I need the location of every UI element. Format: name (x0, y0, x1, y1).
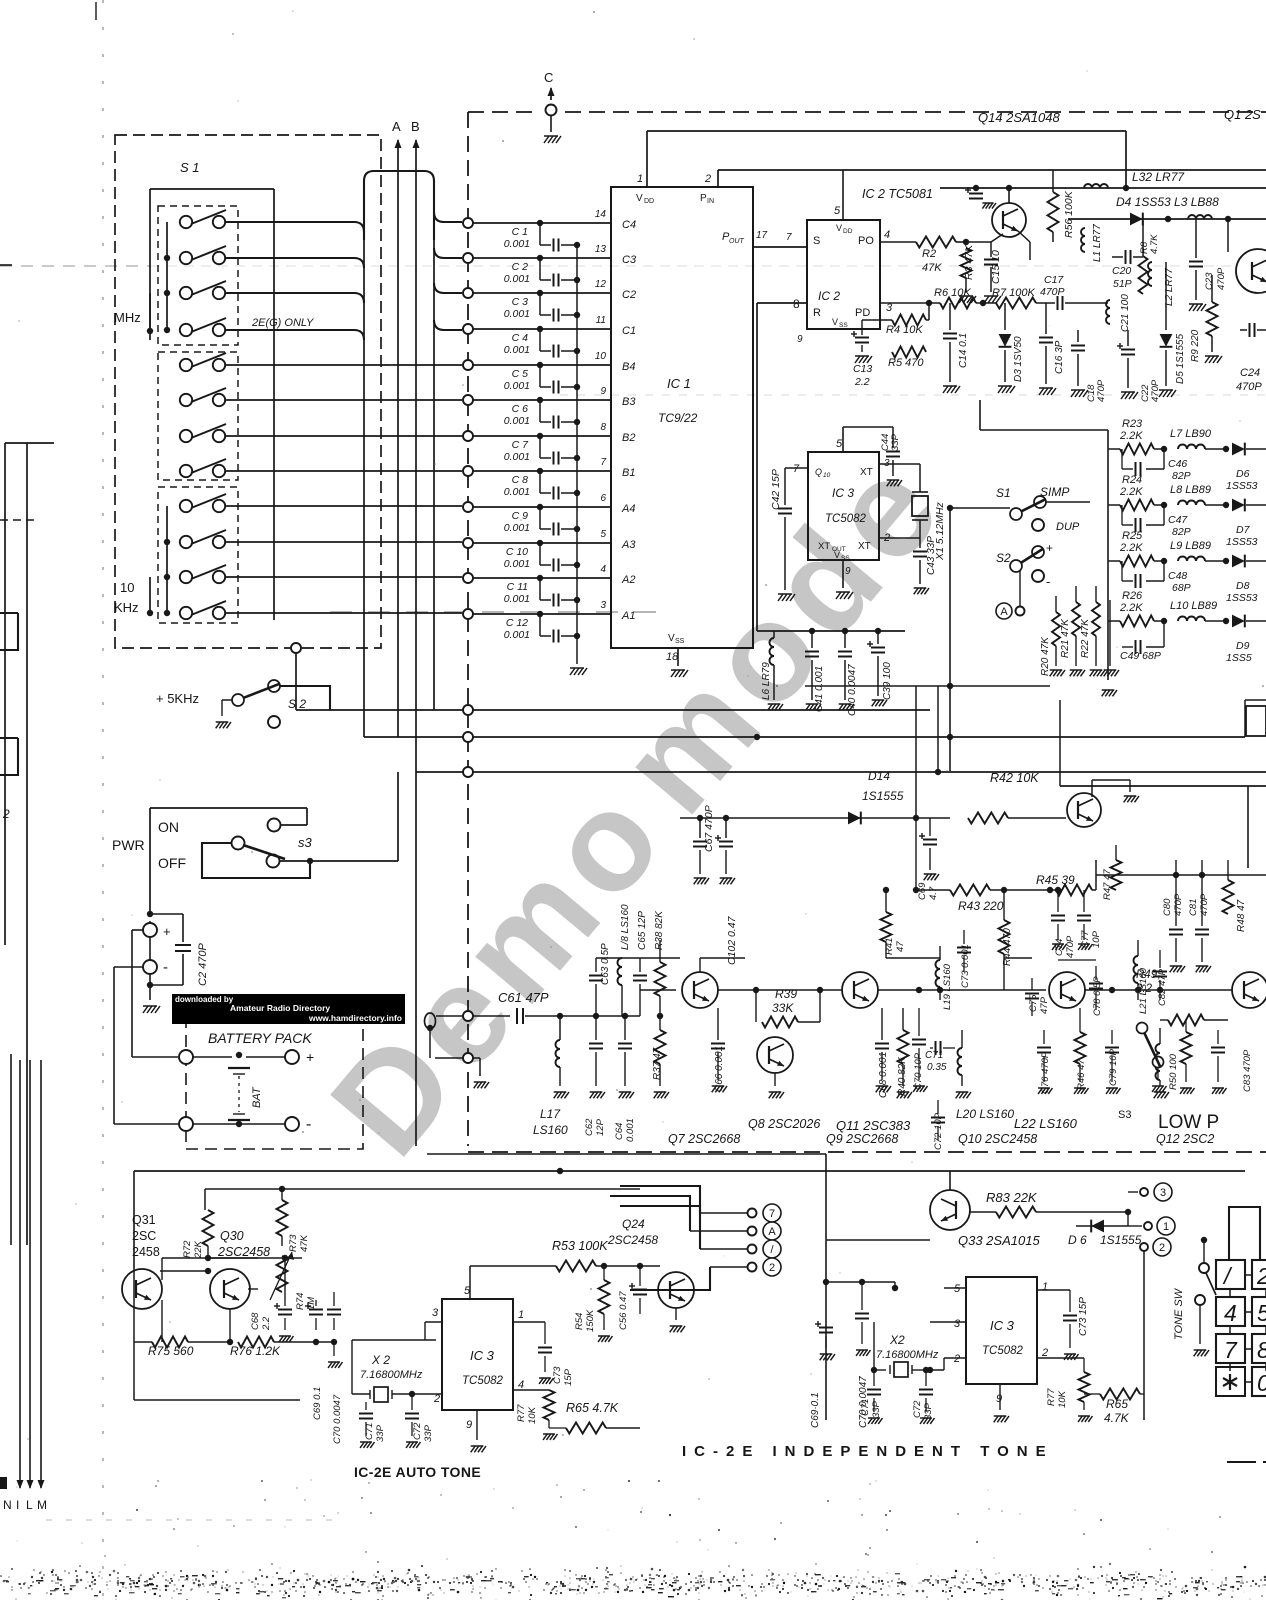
black banner downloaded by Amateur Radio Directory (172, 994, 405, 1024)
svg-text:BATTERY PACK: BATTERY PACK (208, 1030, 312, 1046)
capacitor C42 15P (770, 468, 795, 601)
resistor R6 10K (934, 287, 976, 309)
diode D6 1SS53 (1226, 443, 1266, 492)
svg-text:R45 39: R45 39 (1036, 873, 1075, 887)
switch S2 5KHz (156, 680, 330, 728)
svg-text:M: M (37, 1498, 47, 1512)
svg-text:4: 4 (518, 1379, 524, 1391)
svg-text:-: - (306, 1116, 311, 1133)
inductor L7 LB90 (1170, 428, 1229, 452)
capacitor C70 0.0047 (332, 1394, 343, 1444)
svg-text:C 12: C 12 (506, 617, 528, 629)
svg-text:L9 LB89: L9 LB89 (1170, 540, 1211, 552)
transistor Q9 2SC2668 (826, 972, 898, 1146)
svg-text:47: 47 (895, 941, 906, 952)
svg-text:0: 0 (1257, 1370, 1266, 1396)
resistor R45 39 (1036, 873, 1096, 896)
svg-text:R50 100: R50 100 (1168, 1053, 1179, 1090)
svg-text:C73: C73 (552, 1366, 563, 1384)
svg-text:0.001: 0.001 (504, 344, 530, 356)
capacitor C68 2.2 (250, 1300, 294, 1342)
svg-text:470P: 470P (1065, 935, 1076, 958)
S1 outline box (150, 189, 274, 620)
node terminal row C1 (463, 324, 611, 334)
dashed sub-box MHz switches upper (158, 206, 238, 345)
ground IC1 Vss (671, 648, 688, 677)
capacitor C44 33P (843, 427, 902, 486)
op-amp IC1 TC9122 box (611, 173, 753, 663)
svg-text:5: 5 (834, 205, 841, 217)
svg-text:1SS53: 1SS53 (1226, 536, 1258, 548)
svg-text:2.2K: 2.2K (1119, 486, 1143, 498)
svg-text:R54: R54 (574, 1313, 585, 1330)
svg-text:7: 7 (769, 1208, 775, 1220)
svg-text:Q10 2SC2458: Q10 2SC2458 (958, 1132, 1037, 1146)
capacitor C7 0.001 (504, 436, 580, 465)
svg-text:L1 LR77: L1 LR77 (1092, 224, 1103, 262)
svg-text:+ 5KHz: + 5KHz (156, 691, 199, 706)
svg-text:0.35: 0.35 (927, 1062, 947, 1073)
resistor R76 1.2K (230, 1337, 337, 1359)
op-amp IC3 TC5082 box (785, 427, 890, 577)
svg-text:C 9: C 9 (512, 510, 529, 522)
svg-text:10: 10 (823, 472, 831, 479)
switch S1-3 (180, 281, 226, 299)
svg-text:R26: R26 (1122, 590, 1143, 602)
inductor L6 LR79 (761, 631, 783, 710)
svg-text:D14: D14 (868, 769, 890, 783)
svg-text:S2: S2 (996, 551, 1011, 565)
svg-text:3: 3 (1160, 1187, 1166, 1199)
svg-text:1: 1 (1042, 1281, 1048, 1293)
svg-text:0.001: 0.001 (504, 486, 530, 498)
capacitor C65 12P (633, 911, 648, 1016)
svg-text:10: 10 (120, 580, 134, 595)
capacitor C79 10P (1105, 1030, 1121, 1094)
svg-text:0.001: 0.001 (504, 593, 530, 605)
left margin crop marks (0, 265, 36, 520)
svg-text:Q24: Q24 (622, 1217, 645, 1231)
capacitor coupling pair (305, 1292, 341, 1330)
resistor R46 47 (1074, 1008, 1088, 1094)
wire switch rows middle-lower to terminals (225, 365, 462, 613)
svg-text:4: 4 (600, 564, 606, 575)
svg-text:C39 100: C39 100 (882, 662, 893, 700)
capacitor C41 0.001 (805, 631, 825, 712)
capacitor C71 0.35 (925, 1041, 955, 1073)
node terminal row B3 (463, 395, 611, 405)
svg-text:A: A (1000, 606, 1008, 618)
svg-text:Q30: Q30 (220, 1229, 244, 1243)
capacitor C13 2.2 electrolytic (851, 320, 880, 388)
resistor R26 2.2K (1108, 590, 1167, 627)
resistor R5 470 (888, 347, 926, 370)
svg-text:C42 15P: C42 15P (770, 469, 782, 510)
transistor Q12 2SC (1156, 972, 1266, 1146)
capacitor C10 0.001 (504, 543, 580, 572)
capacitor C75 47P (1025, 978, 1050, 1016)
switch S1-6 (180, 388, 226, 406)
svg-text:Amateur Radio Directory: Amateur Radio Directory (230, 1003, 330, 1013)
switch S1-11 (180, 565, 226, 583)
capacitor C4 0.001 (504, 329, 580, 358)
capacitor C49 68P (1120, 621, 1164, 662)
node terminal row C3 (463, 253, 611, 263)
inductor L3 (1165, 215, 1231, 222)
ground battery (143, 985, 160, 1013)
capacitor C82 47P (1153, 950, 1168, 1006)
capacitor C72 33P indep (912, 1358, 944, 1424)
svg-text:2: 2 (1256, 1263, 1266, 1289)
pin 13 C3 (595, 244, 637, 266)
svg-text:470P: 470P (1040, 286, 1065, 298)
capacitor C15 10 (966, 242, 1002, 303)
svg-text:17: 17 (756, 230, 768, 241)
svg-text:PO: PO (858, 235, 874, 247)
svg-text:C 3: C 3 (512, 296, 529, 308)
capacitor C73 0.001 (957, 930, 971, 988)
diode D5 1S1555 (1159, 262, 1186, 397)
capacitor C76 470P (1037, 1030, 1053, 1094)
svg-text:A: A (392, 119, 401, 134)
svg-text:R72: R72 (182, 1240, 193, 1258)
svg-text:8: 8 (1257, 1337, 1266, 1363)
svg-text:C47: C47 (1168, 514, 1188, 526)
wire to detector (790, 683, 1050, 821)
capacitor C69 0.1 indep (810, 1321, 835, 1428)
svg-text:C20: C20 (1112, 265, 1131, 277)
wire pin3 link (352, 1322, 425, 1340)
svg-text:R4 10K: R4 10K (886, 324, 923, 336)
resistor R37 47 (652, 1016, 669, 1098)
svg-text:-: - (163, 959, 168, 976)
svg-text:2: 2 (1041, 1347, 1048, 1359)
svg-text:C 4: C 4 (512, 332, 529, 344)
svg-text:C66 0.001: C66 0.001 (714, 1046, 725, 1092)
capacitor C64 0.001 (614, 1013, 636, 1142)
svg-text:A2: A2 (621, 574, 635, 586)
svg-text:C81: C81 (1188, 899, 1199, 916)
svg-text:0.001: 0.001 (504, 238, 530, 250)
svg-text:R2: R2 (922, 248, 936, 260)
transistor Q32 (658, 1266, 694, 1332)
diode D14 1S1555 (848, 769, 904, 824)
wire switch rows upper to bundle (225, 222, 364, 340)
node terminal row A3 (463, 538, 611, 548)
svg-text:2: 2 (1159, 1242, 1165, 1254)
svg-text:www.hamdirectory.info: www.hamdirectory.info (308, 1013, 402, 1023)
diode D4 (1130, 213, 1143, 226)
svg-text:V: V (836, 223, 842, 233)
node terminal 1 (1157, 1217, 1175, 1235)
svg-text:R: R (813, 307, 821, 319)
svg-text:3: 3 (432, 1307, 439, 1319)
capacitor C77 10P (1077, 890, 1102, 950)
svg-text:P: P (700, 193, 707, 204)
svg-text:R53 100K: R53 100K (552, 1239, 608, 1253)
wire RF rail (1068, 218, 1266, 220)
svg-text:1: 1 (518, 1309, 524, 1321)
capacitor C16 3P (1039, 303, 1065, 395)
resistor R22 47K (1080, 586, 1105, 676)
wire bus 3 (416, 767, 1266, 777)
node terminal row B1 (463, 466, 611, 476)
svg-text:3: 3 (600, 600, 606, 611)
svg-text:4: 4 (884, 229, 890, 241)
svg-text:C 8: C 8 (512, 474, 529, 486)
svg-text:R48 47: R48 47 (1236, 899, 1247, 932)
switch S1 SIMP (996, 485, 1090, 520)
svg-text:XT: XT (860, 467, 873, 478)
svg-text:XT: XT (858, 541, 871, 552)
pin 8 B2 (600, 422, 635, 444)
svg-text:C73 15P: C73 15P (1078, 1297, 1089, 1336)
svg-text:2SC: 2SC (132, 1229, 156, 1243)
svg-text:Q8 2SC2026: Q8 2SC2026 (748, 1117, 820, 1131)
capacitor C66 0.001 (711, 1008, 727, 1092)
wire rf mid rail (1096, 860, 1266, 890)
svg-text:9: 9 (466, 1419, 472, 1431)
svg-text:33K: 33K (772, 1001, 794, 1015)
svg-text:LOW P: LOW P (1158, 1112, 1219, 1133)
svg-text:R5 470: R5 470 (888, 357, 924, 369)
battery pack dashed box (186, 997, 363, 1149)
node C input (544, 70, 561, 143)
key 4 (1216, 1297, 1245, 1326)
svg-text:A1: A1 (621, 610, 635, 622)
capacitor C71 33P indep (860, 1370, 883, 1424)
svg-text:47K: 47K (299, 1234, 310, 1252)
resistor R7 100K (992, 287, 1036, 309)
svg-text:C24: C24 (1240, 367, 1260, 379)
svg-text:C69·0.1: C69·0.1 (810, 1392, 821, 1428)
svg-text:5: 5 (954, 1283, 961, 1295)
svg-text:R65 4.7K: R65 4.7K (566, 1401, 619, 1415)
svg-text:2.2: 2.2 (261, 1316, 272, 1331)
svg-text:D3 1SV50: D3 1SV50 (1013, 336, 1024, 382)
resistor R8 4.7K (1139, 221, 1161, 294)
svg-text:470P: 470P (1236, 381, 1262, 393)
svg-text:7: 7 (786, 232, 792, 243)
capacitor C73 15P auto (513, 1322, 574, 1386)
wire chain top link (886, 958, 1096, 960)
svg-text:Q12 2SC2: Q12 2SC2 (1156, 1132, 1214, 1146)
capacitor C72 10P (931, 1100, 945, 1150)
svg-text:A: A (768, 1226, 776, 1238)
resistor R77 10K auto (513, 1390, 558, 1440)
wire q30-q31 bias (160, 1210, 302, 1342)
pin 9 B3 (600, 386, 636, 408)
capacitor C19 electrolytic (965, 187, 996, 209)
resistor R23 2.2K (1108, 418, 1167, 455)
svg-text:0.001: 0.001 (504, 451, 530, 463)
svg-text:C: C (544, 70, 553, 85)
switch S1-4 (180, 318, 226, 336)
svg-text:C56 0.47: C56 0.47 (618, 1291, 629, 1330)
node A terminal (996, 570, 1025, 619)
svg-text:82P: 82P (1172, 526, 1191, 538)
svg-text:470P: 470P (1096, 379, 1107, 402)
svg-text:X 2: X 2 (371, 1353, 390, 1367)
wire tone bottom rail (134, 1268, 334, 1400)
svg-text:R24: R24 (1122, 474, 1142, 486)
svg-text:BAT: BAT (251, 1086, 263, 1108)
inductor L20 LS160 (956, 1030, 1015, 1121)
capacitor C81 470P (1188, 860, 1211, 972)
wire q10-q12 (1085, 987, 1232, 993)
capacitor C40 0.0047 (838, 631, 858, 716)
resistor R21 47K (1060, 586, 1085, 676)
wire battery minus (114, 967, 178, 1124)
svg-text:Q31: Q31 (132, 1213, 156, 1227)
svg-text:C14 0.1: C14 0.1 (958, 333, 969, 368)
key 7 (1216, 1334, 1245, 1363)
capacitor C21 100 (1106, 294, 1131, 332)
capacitor C47 82P (1122, 505, 1191, 538)
pin 5 A3 (600, 529, 636, 551)
svg-text:C13: C13 (853, 363, 872, 375)
svg-text:C79 10P: C79 10P (1108, 1048, 1119, 1086)
svg-text:9: 9 (845, 566, 851, 577)
svg-text:IC 2: IC 2 (818, 289, 840, 303)
svg-text:470P: 470P (1199, 893, 1210, 916)
svg-text:DD: DD (843, 228, 853, 235)
svg-text:TC5082: TC5082 (982, 1345, 1024, 1357)
capacitor C62 12P (584, 1013, 606, 1136)
ground ladder common (1104, 600, 1119, 676)
svg-text:TC5082: TC5082 (462, 1375, 504, 1387)
svg-text:R74: R74 (295, 1293, 306, 1310)
svg-text:D5 1S1555: D5 1S1555 (1175, 334, 1186, 384)
inductor L9 LB89 (1170, 540, 1229, 564)
capacitor C2 470P (147, 911, 209, 988)
svg-text:5: 5 (600, 529, 606, 540)
svg-text:33P: 33P (871, 1400, 882, 1418)
resistor R74 1M variable (270, 1252, 317, 1310)
svg-text:1SS53: 1SS53 (1226, 480, 1258, 492)
pin 11 C1 (596, 315, 636, 337)
capacitor C39 100 electrolytic (867, 631, 893, 706)
resistor R43 220 (913, 818, 1050, 913)
node antenna jack (425, 1013, 436, 1058)
svg-text:S1: S1 (996, 486, 1011, 500)
svg-text:R43 220: R43 220 (958, 899, 1004, 913)
resistor R41 47 (881, 887, 907, 958)
pin 14 C4 (595, 209, 636, 231)
svg-text:C 11: C 11 (507, 581, 528, 593)
svg-text:R7 100K: R7 100K (992, 287, 1035, 299)
svg-text:R49: R49 (1136, 969, 1158, 981)
svg-text:A3: A3 (621, 539, 636, 551)
svg-text:TC5082: TC5082 (825, 513, 867, 525)
capacitor C67 470P (680, 805, 790, 884)
svg-text:2: 2 (704, 173, 711, 185)
svg-text:C72: C72 (912, 1400, 923, 1418)
svg-text:L/8 LS160: L/8 LS160 (620, 904, 631, 950)
capacitor C61 47P (498, 990, 560, 1024)
svg-text:2458: 2458 (132, 1245, 160, 1259)
wire pin5 feed (826, 1282, 898, 1291)
svg-text:2SC2458: 2SC2458 (607, 1233, 658, 1247)
svg-text:1S1555: 1S1555 (862, 789, 904, 803)
svg-text:Q11 2SC383: Q11 2SC383 (836, 1118, 911, 1133)
transistor Q10 2SC2458 (958, 972, 1085, 1146)
svg-text:R39: R39 (775, 987, 797, 1001)
op-amp IC2 TC5081 box (793, 187, 933, 345)
svg-text:C40 0.0047: C40 0.0047 (847, 664, 858, 716)
node terminal row B4 (463, 360, 611, 370)
key 2 (1252, 1260, 1266, 1289)
svg-text:C68: C68 (250, 1312, 261, 1330)
svg-text:TONE SW: TONE SW (1173, 1287, 1185, 1340)
svg-text:SS: SS (675, 638, 685, 645)
svg-text:0.001: 0.001 (504, 558, 530, 570)
svg-text:C4: C4 (622, 219, 636, 231)
svg-text:C48: C48 (1168, 570, 1187, 582)
svg-text:OFF: OFF (158, 855, 186, 871)
capacitor C20 51P (1112, 250, 1143, 290)
capacitor C69 4.7 electrolytic (917, 818, 939, 900)
transistor Q8 2SC2026 (748, 1037, 820, 1131)
svg-text:C3: C3 (622, 254, 637, 266)
inductor L21 LS160 (1134, 940, 1150, 1014)
svg-text:C23: C23 (1204, 272, 1215, 290)
svg-text:B: B (411, 119, 420, 134)
left cut-off box fragments (0, 613, 18, 821)
svg-text:D 6: D 6 (1068, 1233, 1087, 1247)
capacitor C78 0.5P (1089, 966, 1103, 1016)
svg-text:C2 470P: C2 470P (197, 943, 209, 986)
capacitor C17 470P (1040, 274, 1065, 310)
wire B sense line (411, 119, 420, 1146)
node battery minus terminal (143, 937, 168, 985)
svg-text:IC 3: IC 3 (990, 1318, 1015, 1333)
switch S1-9 (180, 494, 226, 512)
svg-text:S: S (813, 235, 820, 247)
op-amp IC3 TC5082 independent (895, 1277, 1048, 1422)
svg-text:L32 LR77: L32 LR77 (1132, 170, 1185, 184)
svg-text:0.001: 0.001 (504, 308, 530, 320)
svg-text:2E(G) ONLY: 2E(G) ONLY (251, 317, 314, 329)
transistor Q24 2SC2458 (607, 1217, 658, 1247)
svg-text:2.2K: 2.2K (1119, 430, 1143, 442)
svg-text:TC9/22: TC9/22 (658, 411, 698, 425)
wire ladder left bus (1102, 430, 1122, 696)
svg-text:s3: s3 (298, 835, 313, 850)
node terminal 2 (1140, 1238, 1171, 1420)
node MHz bus (114, 222, 180, 334)
capacitor C18 470P (1071, 330, 1107, 402)
svg-text:IC 1: IC 1 (667, 376, 691, 391)
svg-text:C 1: C 1 (512, 226, 528, 238)
svg-text:470P: 470P (1216, 267, 1227, 290)
svg-text:1SS53: 1SS53 (1226, 592, 1258, 604)
svg-text:7: 7 (1224, 1337, 1238, 1363)
wire S1 common (947, 505, 1010, 771)
svg-text:0.001: 0.001 (504, 380, 530, 392)
svg-text:47P: 47P (1039, 996, 1050, 1014)
svg-text:D6: D6 (1236, 468, 1250, 480)
transistor Q13 (1067, 780, 1139, 827)
wire q9-q10 (878, 987, 1046, 993)
svg-text:B3: B3 (622, 396, 636, 408)
inductor L18 LS160 (618, 904, 632, 1016)
resistor R56 100K (1048, 170, 1076, 242)
wire left vertical bus (5, 443, 54, 1245)
wire right risers (938, 686, 1266, 868)
svg-text:L17: L17 (540, 1107, 561, 1121)
switch S1-1 (180, 210, 226, 228)
